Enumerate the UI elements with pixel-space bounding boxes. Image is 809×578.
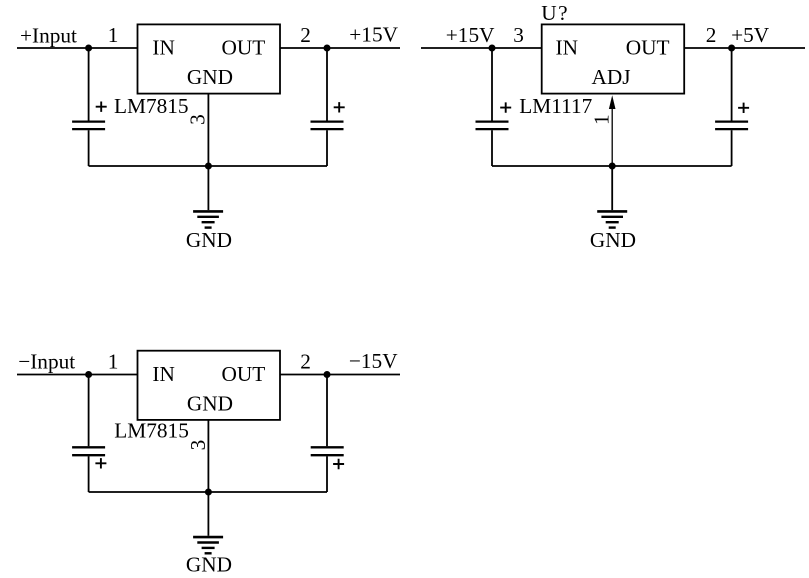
wire input cap drop bottom (88, 456, 90, 492)
ground symbol (193, 210, 223, 213)
wire output rail (280, 47, 400, 49)
wire output cap drop top (731, 48, 733, 121)
capacitor C5 input (72, 447, 105, 455)
svg-text:GND: GND (187, 391, 233, 415)
capacitor C4 output (715, 122, 748, 130)
capacitor C6 output (311, 447, 344, 455)
wire ground stem (611, 166, 613, 210)
svg-text:1: 1 (108, 349, 119, 373)
svg-text:3: 3 (513, 23, 524, 47)
svg-text:+15V: +15V (446, 23, 495, 47)
junction ground node (205, 163, 212, 170)
wire input cap drop top (88, 48, 90, 121)
wire input rail (421, 47, 542, 49)
wire output rail (684, 47, 805, 49)
wire ground stem (207, 166, 209, 210)
wire input rail (17, 47, 138, 49)
svg-text:U?: U? (541, 1, 567, 25)
C6 polarity + (333, 459, 344, 469)
svg-text:3: 3 (186, 440, 210, 451)
svg-text:GND: GND (187, 65, 233, 89)
junction output node (324, 371, 331, 378)
pin 3 wire (207, 94, 209, 166)
svg-text:LM7815: LM7815 (114, 419, 189, 443)
junction output node (728, 45, 735, 52)
svg-text:GND: GND (186, 228, 232, 252)
svg-text:2: 2 (706, 23, 717, 47)
svg-text:−Input: −Input (18, 350, 75, 374)
svg-text:2: 2 (300, 349, 311, 373)
capacitor C1 input (72, 122, 105, 130)
wire ground stem (207, 492, 209, 536)
svg-text:OUT: OUT (222, 36, 266, 60)
C5 polarity + (95, 458, 106, 468)
svg-text:IN: IN (152, 362, 174, 386)
wire input cap drop top (491, 48, 493, 121)
regulator U LM7815 box (138, 24, 281, 93)
svg-text:OUT: OUT (626, 36, 670, 60)
svg-text:IN: IN (152, 36, 174, 60)
C3 polarity + (500, 102, 511, 112)
wire output cap drop bottom (326, 130, 328, 166)
ground symbol (597, 210, 627, 213)
wire input cap drop bottom (88, 130, 90, 166)
svg-text:OUT: OUT (222, 362, 266, 386)
wire output rail (280, 374, 400, 376)
wire input cap drop top (88, 375, 90, 447)
ground symbol (193, 536, 223, 539)
svg-text:1: 1 (590, 114, 614, 125)
capacitor C3 input (476, 122, 509, 130)
wire output cap drop bottom (731, 130, 733, 166)
junction output node (324, 45, 331, 52)
C4 polarity + (738, 103, 749, 113)
svg-text:IN: IN (556, 36, 578, 60)
wire output cap drop top (326, 48, 328, 121)
pin 1 wire with arrow to ADJ (611, 108, 613, 166)
svg-text:GND: GND (590, 228, 636, 252)
wire input rail (17, 374, 138, 376)
svg-text:1: 1 (108, 23, 119, 47)
C2 polarity + (334, 102, 345, 112)
capacitor C2 output (311, 122, 344, 130)
svg-text:+15V: +15V (349, 23, 398, 47)
junction ground node (205, 489, 212, 496)
wire ground rail (89, 165, 327, 167)
svg-text:−15V: −15V (349, 349, 398, 373)
svg-text:+Input: +Input (20, 23, 77, 47)
C1 polarity + (96, 102, 107, 112)
regulator U LM7815 box (138, 351, 281, 420)
wire ground rail (492, 165, 732, 167)
wire output cap drop bottom (326, 456, 328, 492)
svg-text:LM7815: LM7815 (114, 94, 189, 118)
wire input cap drop bottom (491, 130, 493, 166)
junction ground node (609, 163, 616, 170)
junction input node (85, 45, 92, 52)
svg-text:LM1117: LM1117 (519, 94, 592, 118)
svg-text:3: 3 (186, 114, 210, 125)
svg-text:ADJ: ADJ (591, 65, 630, 89)
regulator U? LM1117 box (542, 24, 685, 93)
wire output cap drop top (326, 375, 328, 447)
junction input node (489, 45, 496, 52)
svg-text:+5V: +5V (731, 23, 770, 47)
pin 3 wire (207, 420, 209, 492)
wire ground rail (89, 491, 327, 493)
svg-text:GND: GND (186, 553, 232, 577)
svg-text:2: 2 (300, 23, 311, 47)
junction input node (85, 371, 92, 378)
